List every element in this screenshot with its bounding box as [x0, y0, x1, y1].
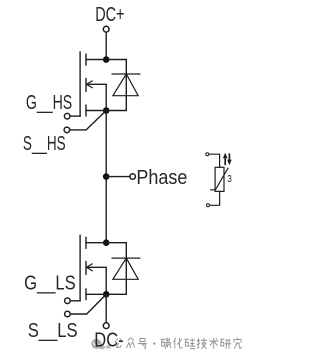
wire phase stub [106, 176, 130, 178]
terminal DC- [103, 323, 109, 329]
svg-text:G__HS: G__HS [26, 92, 72, 114]
Q1 body channel tick [85, 79, 87, 92]
硅 [184, 338, 195, 348]
svg-text:DC-: DC- [94, 329, 123, 351]
wire DC+ to drain node [105, 32, 107, 59]
svg-text:S__LS: S__LS [28, 320, 78, 342]
众 [126, 338, 135, 348]
Q2 body arrow [86, 264, 92, 271]
terminal DC+ [103, 26, 109, 32]
diode D1 loop wire [106, 60, 126, 111]
node Q2 drain [103, 239, 110, 246]
Q2 body wire with corner [87, 267, 107, 294]
Q1 drain channel tick [85, 54, 87, 65]
terminal S_LS [65, 311, 71, 317]
RT1 top wire [209, 154, 220, 167]
wire to DC- [105, 294, 107, 322]
化 [174, 338, 183, 349]
Q2 drain channel tick [85, 237, 87, 248]
diode D1 triangle [113, 74, 138, 96]
svg-text:Phase: Phase [136, 167, 187, 189]
wire S_HS to source node [70, 111, 106, 130]
svg-text:S__HS: S__HS [23, 133, 66, 155]
terminal S_HS [64, 127, 70, 133]
Q2 body channel tick [85, 262, 87, 275]
diode D1 cathode bar [112, 73, 140, 75]
svg-text:DC+: DC+ [95, 4, 124, 26]
terminal Phase [130, 174, 136, 180]
公 [115, 338, 123, 347]
diode D2 triangle [113, 258, 138, 279]
node Q1 source [103, 107, 110, 114]
RT1 body rect [215, 167, 224, 191]
Q1 source channel tick [85, 105, 87, 116]
术 [209, 338, 218, 349]
Q1 source stub [86, 110, 106, 112]
wire G_HS [70, 115, 80, 117]
Q2 source stub [86, 293, 106, 295]
Q1 body wire with corner [87, 84, 107, 110]
node Phase [103, 173, 110, 180]
terminal G_LS [65, 298, 71, 304]
Q1 drain stub [86, 59, 106, 61]
diode D2 loop wire [106, 243, 126, 295]
node Q2 source [103, 291, 110, 298]
RT1 diagonal [211, 168, 228, 190]
node Q1 drain [103, 56, 110, 63]
Q2 source channel tick [85, 289, 87, 300]
技 [197, 338, 207, 349]
Q2 drain stub [86, 242, 106, 244]
Q1 body arrow [86, 81, 92, 88]
watermark text 公众号·碳化硅技术研究 [115, 337, 242, 348]
号 [138, 338, 147, 348]
RT1 up arrow [223, 153, 228, 165]
terminal G_HS [64, 113, 70, 119]
svg-text:G__LS: G__LS [24, 273, 76, 295]
RT1 bottom wire [210, 191, 220, 205]
RT1 down arrow [227, 154, 232, 165]
RT1 bottom terminal [207, 204, 210, 207]
研 [220, 339, 231, 348]
watermark logo [91, 339, 110, 350]
wire G_LS [70, 300, 80, 302]
究 [233, 337, 242, 348]
svg-text:3: 3 [227, 174, 232, 185]
diode D2 cathode bar [112, 257, 140, 259]
transistor Q1 gate bar [79, 52, 81, 116]
wire S_LS to source node [70, 294, 106, 314]
transistor Q2 gate bar [79, 235, 81, 300]
wire phase bus [105, 111, 107, 243]
thermistor RT1 top terminal [206, 153, 209, 156]
middle dot [153, 342, 155, 344]
碳 [161, 337, 172, 348]
